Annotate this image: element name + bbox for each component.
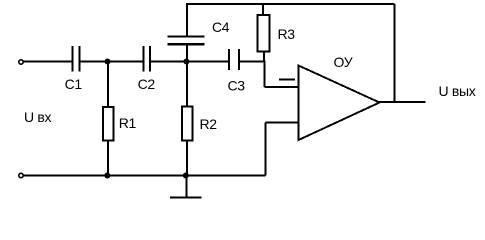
wire: C1 to node A xyxy=(81,61,108,63)
ground xyxy=(170,176,202,198)
svg-text:U вых: U вых xyxy=(439,83,476,99)
wire: node C down toward inverting input xyxy=(264,62,266,88)
top feedback rail wire xyxy=(186,3,395,5)
wire: op-amp output xyxy=(378,101,426,103)
svg-text:C1: C1 xyxy=(65,76,83,92)
svg-text:C4: C4 xyxy=(212,19,230,35)
svg-text:C3: C3 xyxy=(228,78,246,94)
resistor R2 xyxy=(182,62,193,176)
wire: C3 to node C xyxy=(240,61,266,63)
resistor R1 xyxy=(103,62,114,176)
op-amp U1 (OU) xyxy=(299,66,380,141)
wire: non-inverting input of op-amp xyxy=(266,122,299,124)
capacitor C3 xyxy=(229,49,239,70)
svg-text:R3: R3 xyxy=(278,26,296,42)
node A junction dot xyxy=(105,59,111,65)
wire: input terminal to C1 xyxy=(23,61,72,63)
junction dot: R1 at bottom rail xyxy=(104,173,110,179)
capacitor C1 xyxy=(73,46,80,71)
svg-text:R2: R2 xyxy=(200,116,218,132)
junction dot: ground node at bottom rail xyxy=(183,173,189,179)
svg-text:C2: C2 xyxy=(138,76,156,92)
svg-text:R1: R1 xyxy=(119,115,137,131)
svg-text:ОУ: ОУ xyxy=(334,54,353,70)
wire: node A to C2 xyxy=(108,61,143,63)
wire: feedback vertical down to output xyxy=(394,4,396,103)
svg-text:U вх: U вх xyxy=(24,109,52,125)
minus sign (inverting input marker) xyxy=(279,79,295,81)
capacitor C2 xyxy=(143,46,150,71)
input terminal (top, U vx) xyxy=(19,60,23,64)
wire: non-inverting input down to bottom rail xyxy=(265,123,267,176)
wire: inverting input of op-amp xyxy=(265,86,299,88)
resistor R3 xyxy=(258,4,270,63)
bottom rail wire xyxy=(23,175,265,177)
node B junction dot xyxy=(183,59,189,65)
wire: node B to C3 xyxy=(187,61,228,63)
wire: C2 to node B xyxy=(151,61,187,63)
capacitor C4 xyxy=(168,4,205,62)
input terminal (bottom) xyxy=(19,173,23,177)
